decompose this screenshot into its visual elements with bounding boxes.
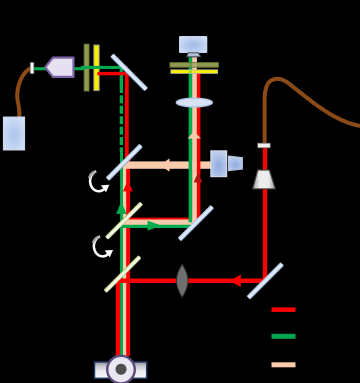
rotation arrow A1 (mirror M2): [89, 171, 109, 192]
arrow red up (left column): [123, 180, 133, 191]
beam green G1b (to fold corner): [81, 66, 123, 69]
fiber connector tick (left): [30, 63, 34, 74]
beam green G3b (horizontal run over peach): [120, 225, 193, 228]
mirror M1 (top left, "\"): [110, 53, 148, 91]
lens L2 (gray, bottom beam): [176, 264, 188, 297]
legend red line: [272, 307, 296, 312]
lens L1 (blue ellipse, center column): [176, 98, 212, 107]
arrow red left (bottom horizontal beam): [230, 275, 241, 288]
beam green G2 solid lower (mirror M2 down to laser): [120, 152, 123, 357]
laser aperture dot: [116, 364, 127, 375]
beam red R2b (vertical, left column lower): [126, 160, 130, 356]
arrow dark-red up (center column): [194, 172, 203, 182]
source box (peach beam source): [211, 151, 227, 177]
beam green G1a (collimator output): [34, 67, 85, 70]
camera nose trapezoid: [186, 53, 200, 57]
fiber connector tick (right column): [258, 143, 271, 148]
arrow peach up (center column): [188, 131, 201, 138]
beam red R4 (horizontal run sliver to mirror M3): [126, 218, 201, 221]
fiber collimator pentagon: [45, 58, 73, 77]
beam peach P2 (vertical, left column down to laser): [123, 164, 128, 356]
yellow filter horizontal plate (below camera): [171, 70, 218, 74]
beam peach P4b (horizontal run over red): [123, 220, 199, 225]
rotation arrow A2 (waveplate W1): [93, 236, 113, 257]
waveplate W2 (left column lower, "/"): [104, 255, 142, 293]
beam peach P1 (horizontal, source box to mirror M2, over column): [123, 161, 211, 168]
waveplate half-olive vertical plate (top-left): [84, 44, 89, 91]
arrow green right (horizontal run): [148, 221, 162, 231]
yellow filter vertical plate (top-left): [94, 45, 99, 91]
beam green G3 (horizontal run to mirror M3): [120, 225, 193, 228]
beam peach P4 (horizontal run to mirror M3): [123, 220, 199, 225]
beam red R7 (bottom horizontal, mirror M4 to left column): [116, 279, 266, 284]
beam peach P5 (center column up to camera): [192, 57, 197, 223]
beam red R2a (vertical, left column upper): [125, 72, 129, 163]
source box nozzle trapezoid: [228, 156, 242, 171]
red dot on mirror M1: [126, 66, 128, 68]
laser mount bar: [95, 362, 147, 378]
mirror M2 (left column, "/"): [106, 144, 143, 181]
beam red R8 (left red line, junction down to laser): [116, 280, 120, 356]
beam red R5 (center column below yellow filter): [197, 73, 201, 222]
mirror M3 (center column fold, "/"): [178, 205, 214, 241]
arrow peach left (horizontal peach beam): [160, 158, 169, 171]
waveplate W1 (left column, "/"): [105, 202, 143, 240]
fiber-coupled box (left): [3, 117, 24, 150]
laser head circle: [107, 356, 135, 383]
fiber F2 (right, from top-right edge down to collimator): [265, 79, 360, 144]
camera body: [179, 36, 207, 52]
olive horizontal plate (below camera): [170, 63, 218, 68]
legend peach line: [272, 362, 296, 367]
objective trapezoid (right column): [253, 170, 275, 189]
fiber F1 (left, connector to fiber-coupled box): [17, 68, 30, 117]
beam green G4 (center column up to camera): [189, 57, 193, 223]
beam red R6 (right column from fiber collimator): [263, 148, 267, 281]
beam green G2 dashed (between mirror M1 and mirror M2): [120, 85, 123, 152]
arrow green up (left column): [116, 201, 126, 214]
beam green G2 solid upper (corner below mirror M1): [120, 66, 123, 85]
beam red R1 (top horizontal from yellow filter): [97, 72, 128, 75]
mirror M4 (bottom right, "/"): [247, 262, 284, 299]
legend green line: [272, 334, 296, 339]
